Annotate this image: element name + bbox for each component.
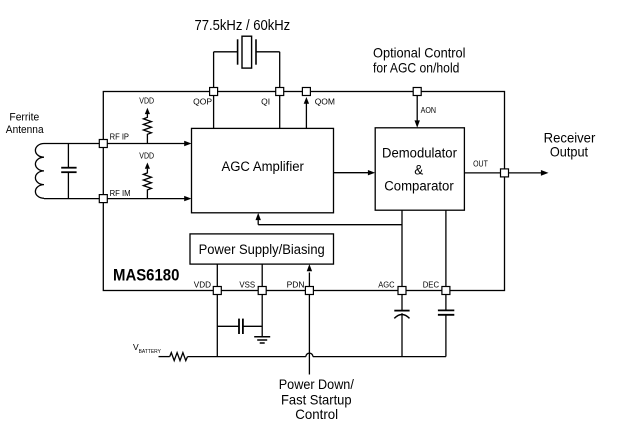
wire hop over PDN line xyxy=(306,353,313,357)
battery rail wire xyxy=(188,356,306,358)
svg-text:Power Supply/Biasing: Power Supply/Biasing xyxy=(199,242,325,257)
VDD arrow symbol (RF IM) xyxy=(145,163,150,169)
svg-text:Demodulator: Demodulator xyxy=(382,146,457,161)
svg-text:OUT: OUT xyxy=(473,159,488,169)
svg-text:AGC: AGC xyxy=(378,279,394,289)
wire demodulator OUT to node xyxy=(464,172,500,174)
svg-text:Optional Control: Optional Control xyxy=(373,44,466,60)
pin node AGC xyxy=(398,287,406,295)
pin node VSS xyxy=(258,287,266,295)
pin node VDD xyxy=(213,287,221,295)
wire OUT node to receiver output (arrow) xyxy=(509,172,543,174)
pin node OUT xyxy=(501,169,509,177)
svg-text:Power Down/: Power Down/ xyxy=(279,376,354,392)
svg-text:77.5kHz / 60kHz: 77.5kHz / 60kHz xyxy=(195,18,291,34)
pin node RF IM xyxy=(99,195,107,203)
svg-text:Control: Control xyxy=(295,406,338,422)
ground symbol xyxy=(254,336,270,338)
antenna tuning capacitor C1 xyxy=(67,144,69,168)
wire power supply to VSS pin xyxy=(261,264,263,286)
AGC filter capacitor C3 xyxy=(401,295,403,311)
svg-text:BATTERY: BATTERY xyxy=(139,349,162,355)
VDD pull-up resistor R2 (RF IM) xyxy=(143,169,151,199)
battery rail wire right xyxy=(313,356,446,358)
svg-text:RF IP: RF IP xyxy=(110,132,130,142)
wire power supply to VDD pin xyxy=(216,264,218,286)
wire QOP down to AGC amplifier xyxy=(213,96,215,129)
wire PDN pin up (arrow into power supply) xyxy=(308,273,310,287)
svg-text:for AGC on/hold: for AGC on/hold xyxy=(373,60,459,76)
crystal X1 body xyxy=(242,36,252,68)
crystal X1 right plate xyxy=(255,39,257,64)
svg-text:DEC: DEC xyxy=(423,279,439,289)
wire QI down to AGC amplifier xyxy=(279,96,281,129)
svg-text:Comparator: Comparator xyxy=(384,179,454,194)
wire antenna top lead xyxy=(44,143,99,145)
wire feedback arrow up into AGC amplifier xyxy=(257,219,259,225)
pin node QI xyxy=(276,88,284,96)
wire feedback branch to AGC amplifier bottom xyxy=(258,224,402,226)
svg-text:PDN: PDN xyxy=(287,279,305,289)
wire VDD pin down to battery rail xyxy=(216,295,218,357)
svg-text:AGC Amplifier: AGC Amplifier xyxy=(221,159,304,174)
svg-text:RF IM: RF IM xyxy=(110,188,131,198)
svg-text:Fast Startup: Fast Startup xyxy=(281,391,352,407)
svg-text:VDD: VDD xyxy=(194,279,211,289)
pin node RF IP xyxy=(99,140,107,148)
svg-text:VDD: VDD xyxy=(139,150,154,160)
wire PDN pin down to control xyxy=(308,295,310,375)
svg-text:QOP: QOP xyxy=(193,97,212,107)
wire QOP vertical up to crystal xyxy=(213,52,215,88)
pin node PDN xyxy=(305,287,313,295)
svg-text:QI: QI xyxy=(261,97,270,107)
svg-text:Antenna: Antenna xyxy=(6,124,45,136)
pin node QOP xyxy=(210,88,218,96)
pin node DEC xyxy=(442,287,450,295)
wire QOM from AGC amplifier up (arrow into node) xyxy=(305,104,307,129)
Power Supply/Biasing block U1c xyxy=(190,234,334,264)
svg-text:QOM: QOM xyxy=(315,97,335,107)
crystal X1 left plate xyxy=(237,39,239,64)
VDD pull-up resistor R1 (RF IP) xyxy=(143,114,151,144)
wire AON down (arrow into demodulator) xyxy=(416,96,418,122)
svg-text:Ferrite: Ferrite xyxy=(9,111,39,123)
wire demodulator DEC down xyxy=(445,210,447,286)
battery feed resistor R3 xyxy=(159,356,170,358)
svg-text:AON: AON xyxy=(421,105,436,115)
svg-text:&: & xyxy=(414,162,423,177)
wire AGC amplifier to demodulator (arrow) xyxy=(334,172,370,174)
VDD arrow symbol (RF IP) xyxy=(145,108,150,114)
svg-text:VDD: VDD xyxy=(139,96,154,106)
ferrite antenna inductor L1 xyxy=(35,144,44,199)
AGC Amplifier block U1a xyxy=(192,128,334,212)
wire VSS pin down to ground xyxy=(261,295,263,337)
wire RF IP into AGC amplifier xyxy=(107,143,186,145)
wire antenna bottom lead xyxy=(44,198,99,200)
DEC decoupling capacitor C4 xyxy=(445,295,447,311)
svg-text:MAS6180: MAS6180 xyxy=(113,266,179,284)
pin node AON xyxy=(413,88,421,96)
bypass capacitor C2 plates xyxy=(238,319,240,334)
svg-text:Output: Output xyxy=(550,144,588,160)
svg-text:VSS: VSS xyxy=(239,279,255,289)
pin node QOM xyxy=(302,88,310,96)
wire crystal right lead xyxy=(256,51,280,53)
Demodulator and Comparator block U1b xyxy=(375,128,464,210)
chip boundary MAS6180 xyxy=(103,92,504,291)
wire demodulator feedback down to AGC pin xyxy=(401,210,403,286)
bypass capacitor C2 lead left xyxy=(217,325,239,327)
bypass capacitor C2 lead right xyxy=(243,325,262,327)
wire crystal left lead xyxy=(214,51,238,53)
wire RF IM into AGC amplifier xyxy=(107,198,186,200)
wire QI vertical up to crystal xyxy=(279,52,281,88)
